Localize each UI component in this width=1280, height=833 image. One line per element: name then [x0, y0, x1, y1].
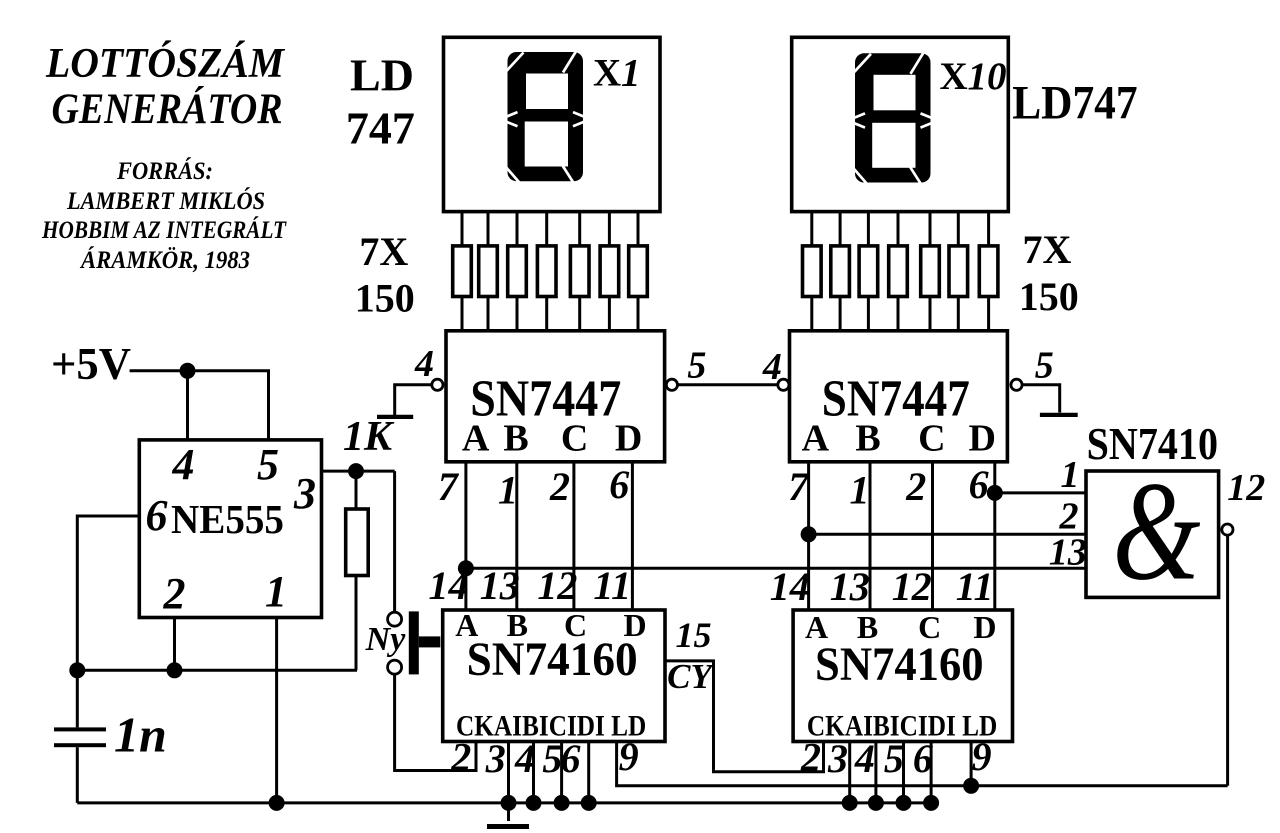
svg-text:15: 15 — [676, 615, 712, 655]
seven segment digit 8 of display1 — [506, 51, 585, 188]
svg-text:D: D — [973, 609, 996, 645]
svg-text:7X: 7X — [1023, 227, 1072, 272]
svg-text:B: B — [857, 609, 878, 645]
svg-text:X: X — [940, 55, 968, 98]
svg-text:HOBBIM AZ INTEGRÁLT: HOBBIM AZ INTEGRÁLT — [41, 215, 287, 244]
svg-text:150: 150 — [1019, 274, 1079, 319]
wire SN7410 output to LD net — [1226, 535, 1229, 786]
svg-text:12: 12 — [1227, 467, 1265, 509]
svg-text:C: C — [564, 607, 587, 643]
svg-text:6: 6 — [146, 491, 168, 540]
svg-text:A: A — [455, 607, 478, 643]
resistor 150 ohm bank2 no4 with leads — [897, 212, 900, 331]
wire BCD A line chip2 — [807, 462, 810, 610]
svg-text:1: 1 — [621, 52, 641, 95]
junction junction A1 line — [458, 560, 474, 576]
svg-text:150: 150 — [355, 275, 415, 320]
wire SN74160 no2 LD stub — [970, 742, 973, 786]
svg-text:747: 747 — [346, 103, 415, 154]
IC SN7447 no2 — [790, 331, 1008, 462]
resistor 1K leads — [355, 471, 358, 670]
resistor 150 ohm bank1 no1 with leads — [461, 212, 464, 331]
wire ground bus — [77, 801, 936, 804]
svg-text:7: 7 — [438, 464, 460, 509]
svg-text:ÁRAMKÖR, 1983: ÁRAMKÖR, 1983 — [79, 245, 250, 274]
svg-text:LD747: LD747 — [1012, 76, 1137, 129]
junction pin2 junction — [167, 662, 183, 678]
resistor 150 ohm bank2 no7 with leads — [987, 212, 990, 331]
svg-text:C: C — [918, 609, 941, 645]
svg-text:5: 5 — [257, 440, 279, 489]
wire SN7447 no1 pin5 to no2 pin4 — [677, 383, 778, 386]
svg-text:13: 13 — [830, 564, 870, 609]
wire SN74160 no1 preset input stub x508 — [507, 742, 510, 803]
svg-text:1: 1 — [1061, 454, 1080, 496]
svg-text:A: A — [805, 609, 828, 645]
wire SN74160 no1 preset input stub x588 — [587, 742, 590, 803]
svg-text:LD: LD — [350, 49, 414, 100]
pin circle SN7447 no2 pin4 bubble — [778, 379, 789, 390]
push button Ny stem — [419, 636, 441, 647]
svg-text:NE555: NE555 — [171, 496, 284, 542]
wire SN74160 no2 preset input stub x875 — [874, 742, 877, 803]
resistor 150 ohm bank2 no1 with leads — [810, 212, 813, 331]
svg-text:6: 6 — [969, 462, 989, 507]
junction bus junction x875 — [868, 795, 884, 811]
svg-text:SN7447: SN7447 — [822, 370, 970, 427]
svg-text:C: C — [561, 418, 588, 460]
svg-text:X: X — [593, 52, 621, 95]
pin circle SN7410 output bubble — [1222, 524, 1233, 535]
wire BCD A line chip1 — [464, 462, 467, 610]
junction bus junction x849 — [842, 795, 858, 811]
svg-text:B: B — [503, 418, 528, 460]
svg-text:&: & — [1113, 452, 1201, 610]
resistor 150 ohm bank2 no2 with leads — [839, 212, 842, 331]
SN7447 no1 pin4 wire to ground — [395, 385, 432, 416]
IC SN7447 no1 — [446, 331, 665, 462]
svg-text:1: 1 — [265, 567, 287, 616]
svg-text:5: 5 — [1035, 345, 1054, 387]
svg-text:4: 4 — [514, 736, 535, 781]
junction junction A2 line — [801, 526, 817, 542]
pin circle SN7447 no2 pin5 bubble — [1011, 379, 1022, 390]
svg-text:2: 2 — [450, 735, 471, 780]
junction pin3 1K junction — [348, 463, 364, 479]
wire NE555 pin6 feedback — [77, 516, 139, 670]
svg-text:6: 6 — [609, 462, 629, 507]
wire net LD load line — [617, 742, 1228, 786]
svg-text:SN74160: SN74160 — [815, 638, 984, 691]
junction node 6-2 left junction — [69, 662, 85, 678]
wire SN74160 no1 preset input stub x561 — [560, 742, 563, 803]
capacitor 1n bottom lead — [76, 747, 79, 803]
wire NE555 pin3 output — [322, 470, 395, 473]
svg-text:2: 2 — [905, 464, 926, 509]
svg-text:5: 5 — [687, 345, 706, 387]
svg-text:9: 9 — [972, 734, 992, 779]
svg-text:1: 1 — [498, 468, 518, 513]
resistor 150 ohm bank2 no6 with leads — [957, 212, 960, 331]
wire switch to CK of SN74160 no1 — [395, 674, 476, 771]
svg-text:1: 1 — [850, 468, 870, 513]
capacitor 1n plates — [54, 727, 106, 731]
junction bus junction x931 — [923, 795, 939, 811]
svg-text:LAMBERT MIKLÓS: LAMBERT MIKLÓS — [66, 186, 265, 215]
resistor 150 ohm bank1 no7 with leads — [637, 212, 640, 331]
ground symbol stub — [507, 803, 510, 821]
wire BCD D line chip1 — [631, 462, 634, 610]
svg-text:7X: 7X — [359, 229, 408, 274]
wire BCD B line chip2 — [869, 462, 872, 610]
junction bus junction x508 — [501, 795, 517, 811]
ground bar at SN7447 no1 pin4 — [377, 415, 413, 419]
svg-text:4: 4 — [854, 736, 875, 781]
pin circle switch top contact — [388, 612, 402, 626]
svg-text:4: 4 — [414, 343, 434, 385]
wire net Q A2 to SN7410 pin2 — [809, 533, 1086, 536]
resistor 1K body — [346, 509, 369, 576]
pin circle SN7447 no1 pin4 bubble — [432, 379, 443, 390]
resistor 150 ohm bank1 no6 with leads — [608, 212, 611, 331]
svg-text:5: 5 — [542, 736, 562, 781]
svg-text:7: 7 — [788, 464, 810, 509]
junction LD net junction — [963, 778, 979, 794]
wire SN74160 no1 preset input stub x533 — [532, 742, 535, 803]
svg-text:9: 9 — [619, 734, 639, 779]
svg-text:Ny: Ny — [365, 621, 407, 658]
svg-text:CY: CY — [667, 657, 715, 696]
seven segment digit 8 of display2 — [853, 52, 932, 189]
junction bus junction x561 — [554, 795, 570, 811]
svg-text:10: 10 — [968, 55, 1007, 98]
svg-text:SN74160: SN74160 — [467, 633, 638, 686]
resistor 150 ohm bank1 no5 with leads — [578, 212, 581, 331]
wire +5V drop to NE555 pin4 — [186, 371, 189, 440]
wire pin3 to switch — [393, 471, 396, 613]
junction bus junction x903 — [896, 795, 912, 811]
wire SN74160 no2 preset input stub x931 — [930, 742, 933, 803]
wire SN74160 no2 preset input stub x849 — [848, 742, 851, 803]
svg-text:2: 2 — [549, 464, 570, 509]
resistor 150 ohm bank2 no5 with leads — [929, 212, 932, 331]
push button Ny actuator bar — [409, 611, 419, 674]
svg-text:GENERÁTOR: GENERÁTOR — [52, 86, 283, 133]
svg-text:4: 4 — [172, 440, 195, 489]
junction bus junction x533 — [526, 795, 542, 811]
svg-text:B: B — [855, 418, 880, 460]
resistor 150 ohm bank1 no3 with leads — [516, 212, 519, 331]
svg-text:D: D — [968, 418, 995, 460]
junction junction D2 line — [987, 485, 1003, 501]
ground bar at SN7447 no2 pin5 — [1040, 413, 1078, 417]
svg-text:A: A — [462, 418, 490, 460]
svg-text:14: 14 — [770, 564, 810, 609]
svg-text:+5V: +5V — [51, 338, 131, 389]
junction pin1 bus junction — [269, 795, 285, 811]
svg-text:B: B — [507, 607, 528, 643]
ground symbol bar — [487, 824, 529, 829]
wire SN74160 no2 preset input stub x903 — [902, 742, 905, 803]
wire net Q D2 to SN7410 pin1 — [995, 491, 1086, 494]
svg-text:1n: 1n — [114, 707, 167, 763]
wire BCD D line chip2 — [993, 462, 996, 610]
svg-text:12: 12 — [892, 564, 932, 609]
svg-text:5: 5 — [884, 736, 904, 781]
svg-text:2: 2 — [163, 569, 186, 618]
wire BCD C line chip1 — [572, 462, 575, 610]
resistor 150 ohm bank1 no2 with leads — [487, 212, 490, 331]
wire +5V rail to NE555 pin5 — [130, 371, 269, 440]
wire CY counter1 pin15 to counter2 CK pin2 — [665, 661, 824, 772]
svg-text:3: 3 — [827, 736, 848, 781]
IC NE555 timer — [139, 440, 321, 618]
IC SN74160 no1 — [443, 610, 665, 742]
pin circle SN7447 no1 pin5 bubble — [666, 379, 677, 390]
svg-text:4: 4 — [762, 346, 782, 388]
wire net Q A1 to SN7410 pin13 — [466, 567, 1086, 570]
wire BCD C line chip2 — [931, 462, 934, 610]
svg-text:11: 11 — [956, 564, 994, 609]
wire NE555 pin2 stub — [173, 618, 176, 671]
svg-text:3: 3 — [485, 736, 506, 781]
display LD747 no1 — [444, 37, 661, 211]
IC SN7410 NAND gate — [1086, 471, 1219, 597]
pin circle switch bottom contact — [388, 660, 402, 674]
IC SN74160 no2 — [793, 610, 1012, 742]
wire BCD B line chip1 — [515, 462, 518, 610]
junction +5V rail junction — [180, 363, 196, 379]
svg-text:1K: 1K — [343, 414, 395, 460]
svg-text:FORRÁS:: FORRÁS: — [116, 156, 213, 185]
svg-text:A: A — [802, 418, 830, 460]
svg-text:D: D — [623, 607, 646, 643]
svg-text:C: C — [918, 418, 945, 460]
capacitor 1n top lead — [76, 670, 79, 727]
junction bus junction x588 — [581, 795, 597, 811]
svg-text:D: D — [615, 418, 642, 460]
svg-text:6: 6 — [561, 736, 581, 781]
wire node 6-2 horizontal — [77, 669, 357, 672]
svg-text:13: 13 — [1049, 531, 1087, 573]
svg-text:LOTTÓSZÁM: LOTTÓSZÁM — [45, 40, 285, 87]
svg-text:3: 3 — [293, 469, 316, 518]
wire NE555 pin1 to ground bus — [275, 618, 278, 803]
resistor 150 ohm bank1 no4 with leads — [545, 212, 548, 331]
SN7447 no2 pin5 wire to ground — [1022, 385, 1060, 413]
svg-text:SN7447: SN7447 — [470, 370, 621, 427]
resistor 150 ohm bank2 no3 with leads — [867, 212, 870, 331]
display LD747 no2 — [792, 37, 1009, 211]
